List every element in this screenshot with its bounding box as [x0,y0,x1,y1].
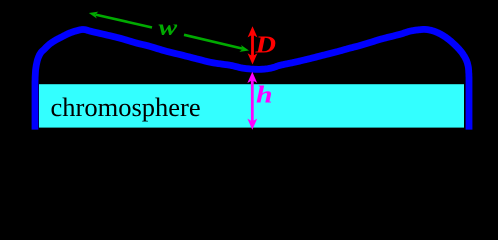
svg-text:D: D [254,33,276,59]
arrow D (red double-headed depth arrow) [248,26,258,64]
label chromosphere [51,92,201,122]
chromosphere layer (cyan slab) [39,84,464,127]
svg-text:h: h [256,82,273,108]
arrow w (green double-headed width arrow) [89,12,249,52]
flux tube boundary (blue curve) [35,29,469,129]
svg-text:w: w [159,15,178,40]
arrow h (magenta double-headed height arrow) [247,72,257,130]
label w [159,15,178,40]
svg-text:chromosphere: chromosphere [51,92,201,122]
label h [256,82,273,108]
label D [254,33,276,59]
